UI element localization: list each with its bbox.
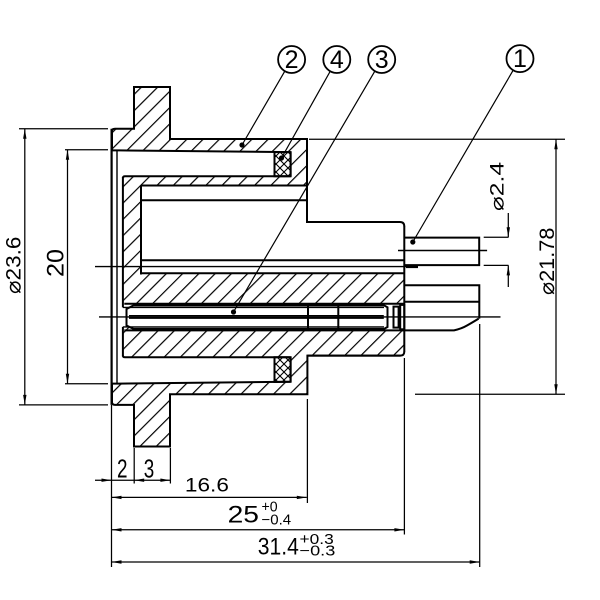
socket contact item 3 outline: [127, 305, 388, 329]
socket tail boxes: [388, 305, 405, 329]
insulator top hatched band: [141, 273, 404, 303]
svg-text:2: 2: [285, 46, 299, 74]
gasket groove right wall bottom: [290, 357, 292, 382]
svg-text:16.6: 16.6: [185, 475, 229, 497]
svg-text:⌀21.78: ⌀21.78: [536, 228, 559, 296]
dimension 2 and 3: [95, 448, 170, 484]
gasket top: [275, 152, 291, 176]
slot ceiling edge bottom: [123, 356, 291, 358]
svg-text:⌀2.4: ⌀2.4: [488, 161, 509, 211]
socket slot lines: [129, 316, 384, 319]
balloon 3: [231, 46, 395, 315]
interior wall right face: [140, 186, 142, 275]
insulator top edge line: [141, 272, 404, 274]
main axis centerline: [95, 266, 418, 268]
dimension 31.4 +0.3 -0.3: [112, 324, 480, 567]
svg-text:3: 3: [375, 46, 389, 74]
gasket groove right wall top: [290, 152, 292, 176]
socket bore lines: [123, 307, 384, 327]
body shell bottom hatched section: [112, 356, 307, 447]
body right face vertical: [403, 227, 405, 352]
svg-text:31.4: 31.4: [258, 534, 299, 561]
wall left face lower: [122, 327, 124, 357]
slot bottom edge: [112, 382, 291, 384]
flange plate left face: [110, 129, 112, 405]
slot floor edge: [123, 176, 291, 178]
slot top edge: [112, 150, 291, 152]
pin centerline: [398, 250, 487, 252]
body shell left wall hatched column: [123, 186, 141, 358]
insulator bottom hatched band: [141, 331, 404, 358]
dimension Ø23.6: [19, 129, 108, 405]
bore top line: [141, 199, 307, 201]
svg-text:−0.4: −0.4: [262, 512, 292, 528]
balloon 1: [410, 45, 533, 245]
svg-text:−0.3: −0.3: [300, 544, 336, 560]
gasket bottom: [275, 357, 291, 382]
balloon 4: [279, 46, 350, 161]
dimension Ø21.78: [309, 139, 565, 394]
contact pin item 1: [404, 238, 479, 266]
svg-text:4: 4: [330, 46, 344, 74]
flange plate right face: [116, 150, 118, 383]
cavity floor line: [141, 259, 405, 261]
wall left face upper: [122, 177, 124, 307]
socket dividers: [308, 305, 338, 329]
body shell top hatched section: [112, 87, 307, 186]
svg-text:2: 2: [117, 456, 128, 484]
svg-text:⌀23.6: ⌀23.6: [3, 237, 26, 294]
interior ceiling line: [141, 185, 307, 187]
shell outline bottom: [112, 352, 404, 447]
interior floor line: [307, 355, 400, 357]
dimension Ø2.4: [484, 213, 509, 287]
socket axis centerline: [99, 316, 501, 318]
pin bottom thick mark: [406, 265, 418, 268]
svg-text:25: 25: [228, 502, 259, 529]
svg-text:3: 3: [144, 456, 155, 484]
insulator bore top line: [124, 303, 404, 305]
dimension 20: [65, 150, 108, 384]
balloon 2: [239, 46, 305, 148]
dimension 25 +0 -0.4: [112, 358, 405, 535]
shell outline top: [112, 87, 404, 227]
socket white silhouette: [122, 305, 405, 329]
insulator bore bottom line with taper: [124, 319, 478, 331]
svg-text:1: 1: [513, 45, 527, 73]
svg-text:20: 20: [43, 249, 70, 277]
dimension 16.6: [112, 399, 308, 567]
rear terminal cylinder: [404, 285, 479, 318]
